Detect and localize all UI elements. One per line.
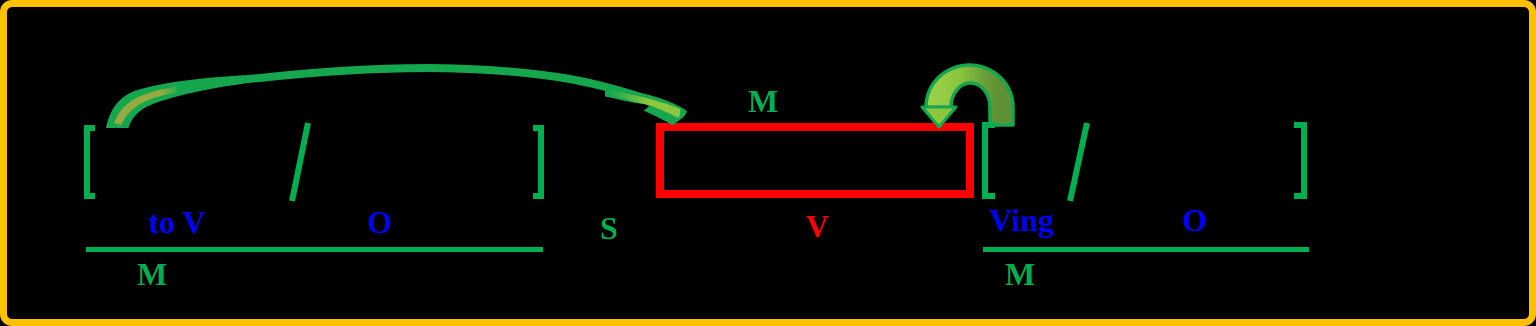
bracket right [ xyxy=(982,122,995,199)
bracket left [ xyxy=(84,125,95,199)
wire: curved arrow tail fan xyxy=(106,75,245,128)
wire: right underline xyxy=(983,247,1309,252)
svg-text:M: M xyxy=(1005,256,1035,292)
svg-text:to V: to V xyxy=(148,204,205,240)
bracket right ] xyxy=(1294,122,1307,199)
node: loop arrow arch xyxy=(926,65,1013,125)
wire: left underline xyxy=(86,247,543,252)
svg-text:M: M xyxy=(137,256,167,292)
wire: big curved arrow body xyxy=(117,68,652,127)
bracket left ] xyxy=(533,125,544,199)
node: curved arrow head xyxy=(605,86,687,125)
svg-text:V: V xyxy=(806,208,829,244)
svg-text:M: M xyxy=(748,83,778,119)
slash left / xyxy=(292,123,308,201)
slash right / xyxy=(1070,123,1087,201)
node: red verb box xyxy=(660,127,970,194)
svg-text:O: O xyxy=(367,204,392,240)
svg-text:O: O xyxy=(1182,202,1207,238)
svg-text:S: S xyxy=(600,210,618,246)
node: loop arrow head xyxy=(922,107,956,127)
wire: curved arrow tail highlight xyxy=(114,87,178,125)
svg-text:Ving: Ving xyxy=(989,202,1054,238)
wire: curved arrow head highlight xyxy=(611,91,680,119)
